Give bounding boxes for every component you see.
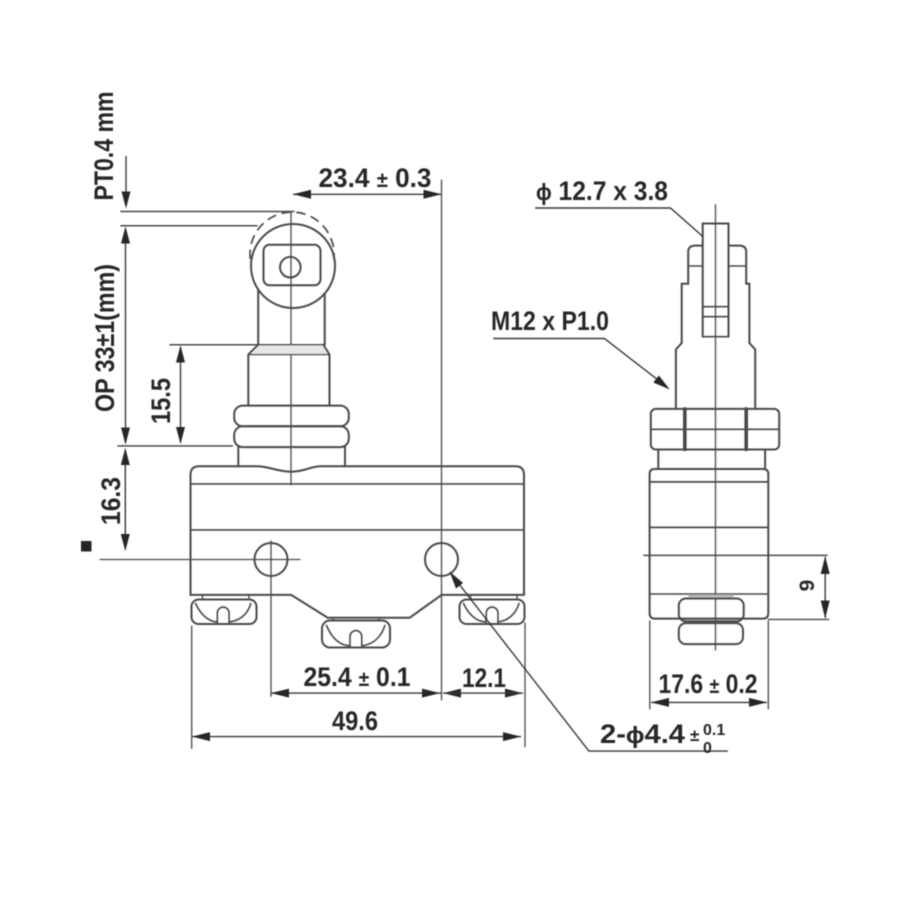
svg-text:2-ϕ4.4: 2-ϕ4.4 xyxy=(600,719,685,749)
side screw upper xyxy=(679,599,744,622)
middle screw slot xyxy=(350,631,362,647)
side body bottom extension line xyxy=(768,618,828,620)
plunger shaft right edge xyxy=(324,294,326,345)
dimension line 12.1 arrows xyxy=(443,689,461,698)
left screw slot xyxy=(217,607,229,623)
right screw neck ticks xyxy=(471,595,518,599)
roller free-position dashed circle xyxy=(250,212,334,258)
svg-text:17.6 ± 0.2: 17.6 ± 0.2 xyxy=(659,669,758,699)
left hole horizontal centerline xyxy=(100,559,300,561)
svg-text:25.4 ± 0.1: 25.4 ± 0.1 xyxy=(304,662,411,692)
tick line between OP and 16.3 xyxy=(117,445,233,447)
left hole vertical extension line xyxy=(270,541,272,696)
svg-text:±: ± xyxy=(690,726,699,745)
side view: threaded bushing right edge xyxy=(749,343,755,408)
extension line 17.6 left xyxy=(649,621,651,709)
side screw lower xyxy=(679,623,743,644)
leader line 2-phi4.4 with arrow xyxy=(453,576,728,751)
OP 33 dimension arrow xyxy=(125,229,127,443)
left screw dome right arc xyxy=(229,604,251,622)
svg-text:15.5: 15.5 xyxy=(146,378,176,424)
side view: right ear of roller fork xyxy=(729,246,747,284)
front view: tangent line free position xyxy=(121,211,294,213)
body lower horizontal line xyxy=(191,529,525,531)
side view: body outline xyxy=(650,469,769,619)
extension line 49.6 left xyxy=(191,626,193,748)
long vertical centerline through right hole xyxy=(441,180,443,700)
middle screw dome left arc xyxy=(327,626,351,646)
roller wheel circle xyxy=(251,224,335,308)
dimension line 17.6 xyxy=(651,701,767,703)
left mounting hole xyxy=(255,543,288,576)
svg-text:M12 x P1.0: M12 x P1.0 xyxy=(491,306,609,336)
extension line 49.6 right xyxy=(524,623,526,747)
left screw dome left arc xyxy=(196,604,218,622)
switch body outline xyxy=(191,466,525,617)
right screw dome left arc xyxy=(464,604,487,622)
svg-text:9: 9 xyxy=(796,580,819,592)
hex nut outline xyxy=(651,409,779,450)
side view: threaded bushing left edge xyxy=(676,343,682,408)
side screw slot shaded band xyxy=(688,595,734,599)
dimension line 9 xyxy=(824,557,826,618)
svg-text:ϕ 12.7 x 3.8: ϕ 12.7 x 3.8 xyxy=(536,176,668,206)
plunger shoulder right chamfer xyxy=(323,345,329,406)
pin lower band line 1 xyxy=(703,306,729,308)
side body line 1 xyxy=(650,481,769,483)
plunger collar right edge xyxy=(344,447,346,466)
side view: fork base step xyxy=(682,284,750,343)
side view: centerline xyxy=(715,205,717,650)
left screw neck ticks xyxy=(203,595,250,599)
bellows ring 1 xyxy=(234,406,349,427)
side view: plunger pin xyxy=(703,224,729,337)
side body line with right extension for 9 dim xyxy=(644,554,827,556)
svg-text:0: 0 xyxy=(703,740,712,757)
plunger shoulder left chamfer xyxy=(248,345,258,406)
left terminal screw outline xyxy=(192,600,257,625)
right mounting hole xyxy=(425,543,458,576)
svg-text:OP 33±1(mm): OP 33±1(mm) xyxy=(90,264,120,412)
side body line at screw level xyxy=(650,593,769,595)
svg-text:49.6: 49.6 xyxy=(332,706,378,736)
front view: tangent line pressed position xyxy=(121,225,257,227)
dimension line 49.6 xyxy=(192,736,521,738)
svg-text:0.1: 0.1 xyxy=(703,722,725,739)
16.3 dimension arrow xyxy=(124,450,126,550)
plunger collar left edge xyxy=(237,447,239,466)
pin bottom line xyxy=(703,336,729,338)
hex nut middle line xyxy=(651,428,779,430)
dimension line 23.4 xyxy=(293,193,442,195)
hex nut facet line left xyxy=(683,409,687,450)
leader line phi 12.7 xyxy=(535,208,703,236)
body upper horizontal line xyxy=(191,483,525,485)
side body line 2 xyxy=(650,526,769,528)
extension line 17.6 right xyxy=(767,621,769,709)
plunger chamfer shaded band xyxy=(248,345,329,355)
15.5 dimension arrow xyxy=(180,347,182,443)
middle screw dome right arc xyxy=(362,626,385,646)
black reference square xyxy=(81,541,92,552)
svg-text:23.4 ± 0.3: 23.4 ± 0.3 xyxy=(319,163,432,193)
middle terminal screw outline xyxy=(322,621,390,648)
plunger shaft left edge xyxy=(257,290,259,345)
right ear axle line xyxy=(729,265,747,267)
middle screw neck ticks xyxy=(333,618,379,621)
right terminal screw outline xyxy=(460,600,525,625)
bellows ring 2 xyxy=(234,426,349,447)
right screw dome right arc xyxy=(498,604,519,622)
plunger shoulder top line xyxy=(170,344,323,346)
roller axle circle xyxy=(280,257,301,278)
PT0.4 down arrow xyxy=(125,156,127,205)
right screw slot xyxy=(486,607,498,623)
svg-text:PT0.4 mm: PT0.4 mm xyxy=(89,92,119,201)
collar below nut right edge xyxy=(764,450,766,470)
plunger shoulder chamfer bottom line xyxy=(248,354,329,356)
front view: vertical centerline of plunger xyxy=(290,212,292,486)
dimension line 25.4 xyxy=(271,692,442,694)
collar below nut left edge xyxy=(657,450,659,470)
side view: left ear of roller fork xyxy=(688,246,703,284)
svg-text:12.1: 12.1 xyxy=(462,663,506,693)
pin lower band line 2 xyxy=(703,316,729,318)
leader line M12 with arrow xyxy=(493,339,666,387)
hex nut facet line right xyxy=(744,409,748,450)
roller bracket rounded rect xyxy=(264,245,321,285)
svg-text:16.3: 16.3 xyxy=(96,477,126,525)
left ear axle line xyxy=(688,265,703,267)
